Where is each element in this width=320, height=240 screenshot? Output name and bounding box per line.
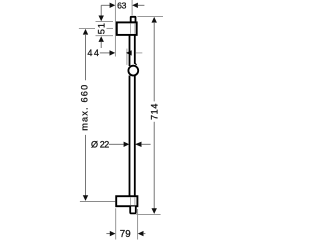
dim 79 line right: [143, 233, 145, 235]
dim 44 arrow right: [126, 50, 132, 55]
dim 22 line left: [109, 143, 124, 145]
dim 51 tick top: [96, 21, 114, 23]
dim 79 arrow left: [110, 231, 116, 236]
top cap of rod: [131, 17, 136, 23]
dim 44 arrow left: [110, 50, 116, 55]
714 bottom extension line: [136, 213, 160, 215]
dim 51 tick bottom: [96, 35, 114, 37]
max660 bottom tick: [80, 201, 115, 203]
dim 63 line left: [101, 4, 110, 6]
dim 63 arrow right: [132, 3, 138, 8]
max660 top tick: [79, 27, 95, 29]
svg-text:63: 63: [117, 0, 127, 10]
79 left extension line: [115, 208, 117, 239]
rod lower segment (slider to bottom bracket): [129, 76, 131, 197]
svg-text:51: 51: [96, 23, 106, 34]
dim 63 line right: [138, 4, 145, 6]
max660 arrow top: [83, 29, 88, 35]
dim 79 line left: [106, 233, 110, 235]
slider ball: [128, 66, 138, 76]
dim 51 leader bottom: [100, 42, 102, 49]
dim 22 arrow left: [124, 142, 130, 147]
max660 dim line upper: [85, 34, 87, 80]
rod seen through bottom bracket: [130, 197, 132, 205]
top wall bracket: [117, 22, 137, 35]
max660 top tick right part: [107, 27, 114, 29]
svg-text:max. 660: max. 660: [79, 85, 89, 131]
svg-text:714: 714: [150, 104, 160, 120]
max660 arrow bottom: [83, 195, 88, 201]
dim 44 right extension line: [126, 49, 128, 65]
dim 714 line upper: [153, 22, 155, 101]
rod seen through top bracket: [130, 23, 132, 33]
dim 79 arrow right: [138, 231, 144, 236]
79 right extension line: [137, 209, 139, 240]
dim 714 arrow top: [152, 17, 157, 23]
svg-text:79: 79: [120, 229, 131, 240]
dim 44 line left: [100, 52, 111, 54]
rod upper segment (bracket to slider): [129, 35, 131, 66]
714 top extension line: [137, 16, 163, 18]
svg-text:44: 44: [87, 48, 99, 58]
wall extension line (left ref for 63 and 44): [114, 0, 116, 57]
dim 51 arrow bottom: [99, 36, 104, 42]
dim 22 tail right: [141, 143, 150, 145]
dim 44 tail right: [136, 52, 142, 54]
slider notch: [135, 63, 137, 65]
svg-text:Ø22: Ø22: [91, 140, 109, 150]
dim 63 arrow left: [110, 3, 116, 8]
dim 51 arrow top: [99, 16, 104, 22]
max660 dim line lower: [85, 135, 87, 196]
dim 22 arrow right: [135, 142, 142, 147]
bottom wall bracket: [116, 196, 137, 206]
dim 714 line lower: [153, 122, 155, 209]
dim 714 arrow bottom: [152, 208, 157, 214]
dim 51 leader top (L from 63 line down): [100, 5, 102, 16]
rod centre extension line (right ref for 63): [131, 0, 133, 15]
bottom stub of rod: [130, 207, 136, 214]
